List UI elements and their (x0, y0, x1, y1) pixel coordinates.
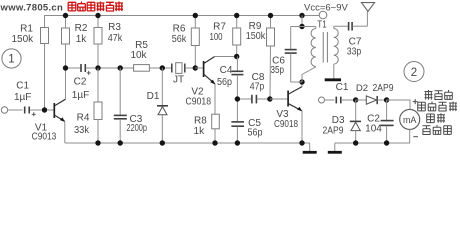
svg-text:56p: 56p (217, 77, 232, 88)
svg-text:1k: 1k (194, 126, 206, 137)
svg-text:C9013: C9013 (32, 131, 57, 142)
svg-text:47p: 47p (250, 82, 265, 93)
svg-text:D3: D3 (332, 115, 345, 126)
svg-text:150k: 150k (246, 31, 266, 42)
svg-text:R4: R4 (77, 113, 90, 124)
junction dots bottom rail left (95, 140, 304, 145)
input terminal (1, 107, 22, 113)
svg-text:D2: D2 (356, 83, 368, 94)
svg-text:T1: T1 (317, 20, 327, 31)
node V1 base (42, 107, 47, 112)
capacitor C4 (217, 57, 243, 100)
Vcc terminal (304, 2, 348, 19)
svg-text:56p: 56p (248, 128, 263, 139)
resistor R6 (172, 16, 200, 69)
svg-text:104: 104 (365, 124, 382, 135)
svg-text:R8: R8 (194, 116, 207, 127)
svg-text:35p: 35p (270, 65, 284, 76)
svg-text:C1: C1 (16, 81, 29, 92)
svg-text:2AP9: 2AP9 (373, 83, 394, 94)
transistor V1 (32, 68, 66, 143)
diode D1 (147, 68, 168, 143)
svg-text:47k: 47k (108, 33, 123, 44)
capacitor C7 (347, 11, 368, 57)
wire Vcc drop (291, 16, 316, 30)
transformer T1 (311, 20, 348, 79)
resistor R4 (74, 68, 102, 143)
svg-text:www.7805.cn: www.7805.cn (0, 3, 63, 14)
diode D3 (323, 100, 362, 143)
antenna (361, 3, 374, 12)
svg-text:R1: R1 (20, 23, 33, 34)
watermark red chinese 电子电路图站 (68, 2, 123, 12)
capacitor C6 (270, 27, 302, 83)
meter mA (400, 109, 420, 143)
wire bottom rail right (335, 142, 410, 144)
svg-text:2AP9: 2AP9 (323, 126, 344, 137)
svg-text:100: 100 (210, 32, 223, 43)
resistor R9 (246, 16, 275, 100)
svg-text:C1: C1 (336, 82, 349, 93)
junction dots bottom rail right (353, 140, 389, 145)
wire to meter (387, 100, 410, 109)
wire top supply rail (45, 16, 320, 28)
svg-text:150k: 150k (11, 34, 34, 45)
resistor R8 (194, 114, 220, 143)
capacitor C5 (231, 99, 262, 143)
node C2 meter (384, 97, 389, 102)
svg-text:56k: 56k (172, 34, 187, 45)
node circle 1 (2, 49, 21, 68)
capacitor C3 (114, 68, 148, 143)
node C4 C8 C5 (235, 96, 240, 101)
resistor R1 (11, 23, 48, 110)
svg-text:33k: 33k (74, 125, 90, 136)
probe terminal (319, 97, 335, 103)
resistor R7 (210, 16, 241, 57)
ground left rail (303, 143, 317, 152)
capacitor C8 (237, 72, 270, 103)
capacitor C1 output (336, 82, 356, 103)
svg-text:R6: R6 (173, 24, 186, 35)
svg-text:C2: C2 (74, 77, 87, 88)
capacitor C2 (72, 64, 98, 101)
transistor V2 (186, 57, 237, 115)
junction dots node row (63, 65, 198, 70)
node circle 2 (404, 62, 424, 82)
svg-text:mA: mA (403, 115, 417, 125)
svg-text:C4: C4 (220, 65, 233, 76)
svg-text:1µF: 1µF (72, 90, 89, 101)
node V3 base (267, 96, 272, 101)
capacitor C1 input (14, 81, 42, 117)
svg-text:1k: 1k (76, 34, 88, 45)
diode D2 (356, 83, 394, 104)
wire node row to R5 (98, 67, 134, 69)
node tank junction (299, 67, 316, 85)
svg-text:1µF: 1µF (14, 92, 31, 103)
wire bottom rail left (65, 142, 310, 144)
svg-text:R3: R3 (108, 22, 121, 33)
svg-text:C9018: C9018 (274, 119, 298, 130)
ground right rail (328, 143, 342, 152)
svg-text:33p: 33p (347, 46, 362, 57)
transistor V3 (270, 82, 302, 143)
ground T1 secondary (325, 78, 341, 81)
svg-text:JT: JT (173, 75, 184, 86)
crystal JT (172, 63, 196, 86)
node R7 collector (234, 54, 239, 59)
resistor R5 (130, 40, 171, 71)
svg-text:C9018: C9018 (186, 97, 212, 108)
svg-text:10k: 10k (130, 50, 147, 61)
note text milliammeter chinese (418, 90, 457, 135)
svg-text:R9: R9 (249, 21, 262, 32)
junction dots top rail (63, 13, 305, 18)
svg-text:2: 2 (411, 67, 417, 79)
svg-text:Vcc=6~9V: Vcc=6~9V (304, 2, 348, 13)
resistor R2 (62, 16, 88, 69)
plus sign meter (413, 99, 418, 104)
svg-text:1: 1 (8, 54, 14, 66)
node D2 D3 (353, 97, 358, 102)
svg-text:2200p: 2200p (127, 123, 148, 134)
svg-text:D1: D1 (147, 91, 160, 102)
capacitor C2 output (365, 100, 393, 143)
svg-text:R2: R2 (75, 23, 88, 34)
resistor R3 (94, 16, 123, 69)
wire mid node row y68 (66, 67, 81, 69)
